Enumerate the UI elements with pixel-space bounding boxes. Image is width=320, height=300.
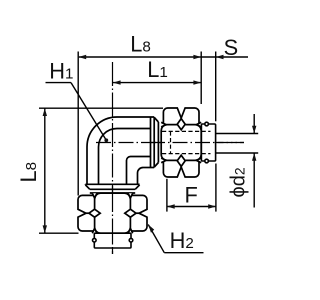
svg-text:S: S <box>224 35 239 60</box>
svg-text:F: F <box>185 183 198 208</box>
svg-text:ϕd2: ϕd2 <box>228 167 250 197</box>
